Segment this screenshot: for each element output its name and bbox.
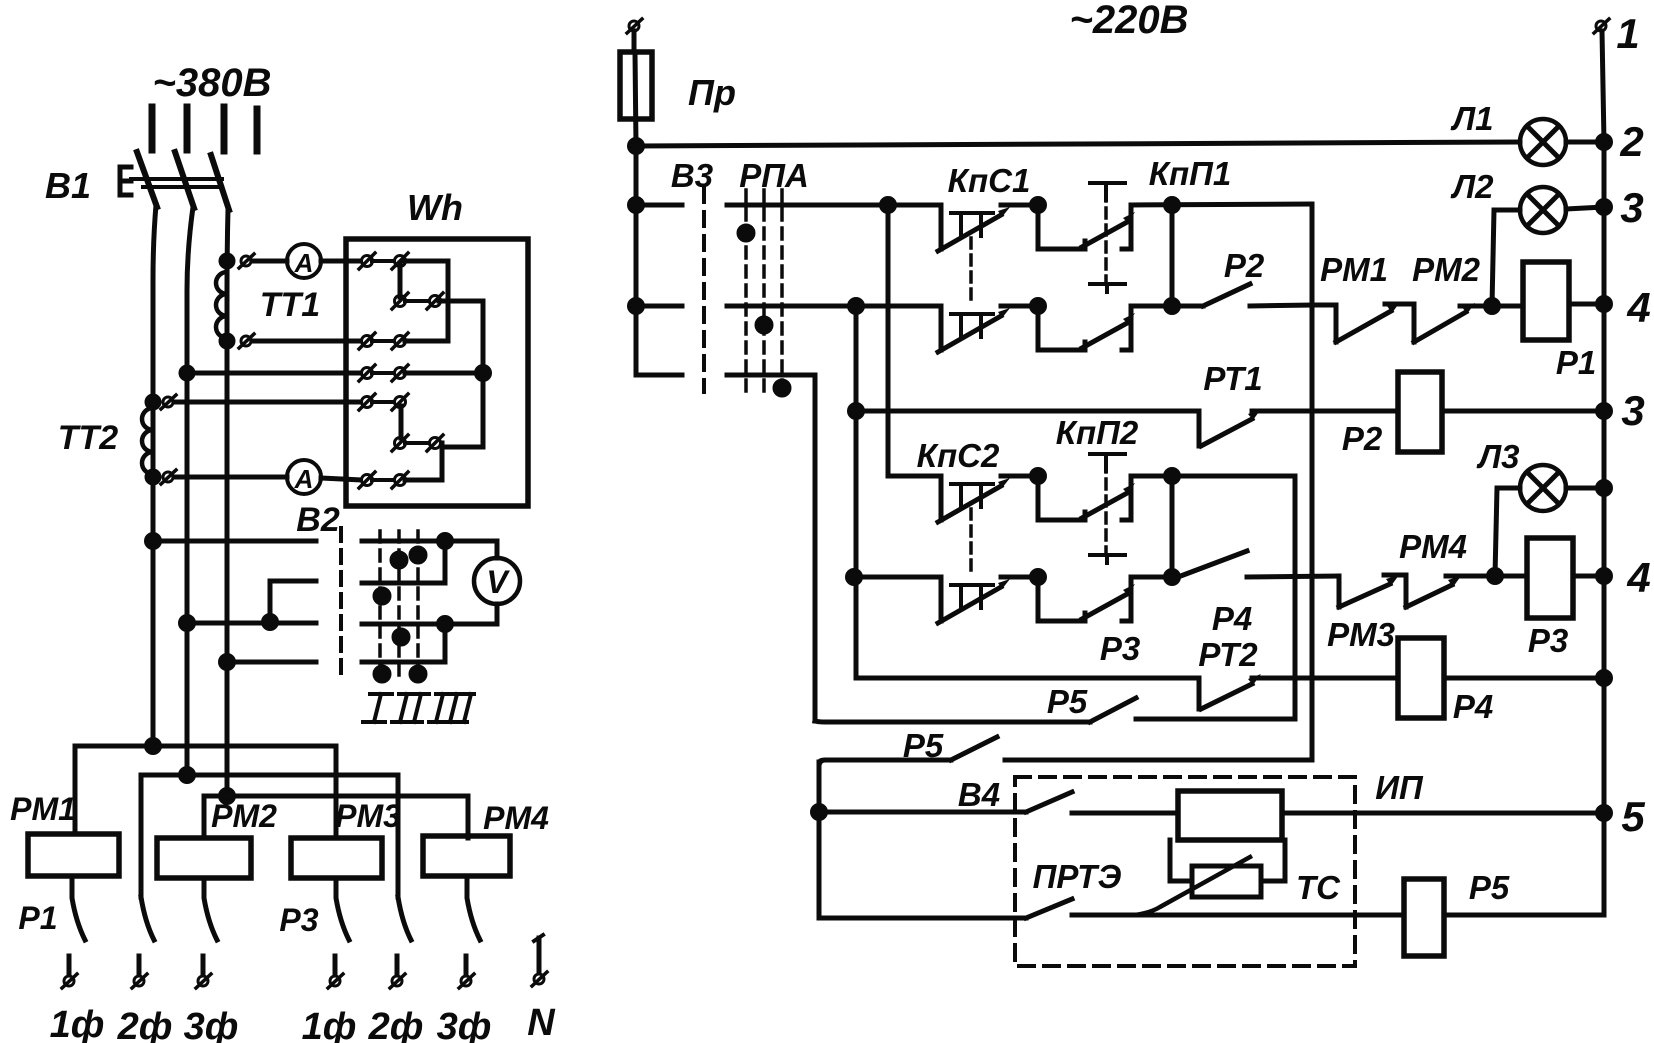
wire row3 stub xyxy=(636,373,682,378)
svg-text:А: А xyxy=(294,464,314,494)
switch B2 contact dot row1 pos II xyxy=(392,553,406,567)
wire PRTE row left xyxy=(819,916,1026,921)
svg-text:РМ2: РМ2 xyxy=(1412,251,1481,288)
wire ammeter A1 to Wh xyxy=(321,259,362,264)
button KpS1 upper contact xyxy=(938,205,1010,251)
contact under feed row2 left xyxy=(141,897,154,940)
relay RPA dashed line 3 xyxy=(780,190,784,392)
wire row1 tail xyxy=(1131,204,1312,205)
wire P5 coil right lead xyxy=(1444,913,1604,918)
terminal TT2 bottom xyxy=(161,470,176,484)
terminal Wh pair C xyxy=(359,333,408,349)
contact under feed row2 right xyxy=(398,897,411,940)
switch B1 bar lower xyxy=(143,185,222,189)
button KpP2 link dashed xyxy=(1104,462,1108,555)
wire row1 after KpS1 xyxy=(1001,203,1035,208)
svg-text:~380В: ~380В xyxy=(153,61,272,105)
terminal TT1 bottom xyxy=(239,334,254,348)
terminal Wh pair G xyxy=(392,435,443,451)
transformer TT1 winding xyxy=(216,272,227,338)
relay RPA dashed line 2 xyxy=(762,190,766,392)
svg-text:РМ3: РМ3 xyxy=(335,798,401,834)
node P4 bus junction xyxy=(1598,672,1611,685)
node B2 row4 tap on phase3 xyxy=(221,656,234,669)
switch B2 dashed shaft xyxy=(339,528,343,682)
contact PM2 xyxy=(1385,303,1489,342)
wire row2 to vertical xyxy=(1250,305,1312,306)
terminal TT2 top xyxy=(161,395,176,409)
contact under PM2 xyxy=(204,878,217,940)
svg-text:V: V xyxy=(486,564,510,600)
node row1 holding tap xyxy=(1166,199,1179,212)
wire B4 row xyxy=(819,810,1026,815)
node fuse-bus junction xyxy=(630,140,643,153)
node row 577 start xyxy=(848,571,861,584)
relay coil PM1 xyxy=(28,834,119,876)
wire B2 row4 right xyxy=(362,660,445,665)
wire row2 to P2 contact xyxy=(1131,304,1203,309)
contact PM3 xyxy=(1339,575,1399,607)
button KpP1 link dashed xyxy=(1104,191,1108,284)
svg-text:1ф: 1ф xyxy=(302,1006,357,1043)
relay RPA dashed line 1 xyxy=(744,190,748,392)
wire RT1 to P2 coil xyxy=(1252,409,1398,414)
node RT1 row start xyxy=(850,405,863,418)
wire row2 stub xyxy=(636,304,682,309)
svg-text:В4: В4 xyxy=(958,776,1000,813)
node 5 xyxy=(1598,807,1611,820)
wire lamp L3 branch xyxy=(1495,488,1520,576)
svg-text:Р1: Р1 xyxy=(1556,344,1596,381)
contact RT2 xyxy=(1199,674,1261,709)
wire TC bracket left xyxy=(1170,840,1192,881)
wire supply stub neutral xyxy=(254,109,261,151)
thermistor TC adjust arrow xyxy=(1135,857,1250,915)
wire row 577 mid xyxy=(1247,576,1339,577)
terminal 1f left group xyxy=(62,956,77,988)
terminal Wh pair B xyxy=(392,293,443,309)
wire Wh internal D lead xyxy=(405,371,480,376)
wire phase2 vertical xyxy=(187,207,193,775)
switch B2 contact dot row3 pos II xyxy=(394,630,408,644)
terminal Wh pair D xyxy=(359,365,408,381)
contact P5 lower blade xyxy=(951,737,997,760)
wire vertical 888 to row 476 xyxy=(888,205,938,476)
svg-text:РМ4: РМ4 xyxy=(1399,528,1467,565)
wire row 722 xyxy=(815,721,1090,722)
wire PRTE row right xyxy=(1072,913,1404,918)
relay coil PM3 xyxy=(291,838,382,878)
coil P4 xyxy=(1398,638,1444,718)
switch B2 position line I xyxy=(378,531,382,680)
button KpP2 lower contact xyxy=(1038,555,1135,621)
wire holding vertical 1312 xyxy=(1310,204,1315,760)
wire supply stub phase1 xyxy=(149,107,156,150)
wire B2 row3 to voltmeter xyxy=(445,604,497,624)
svg-text:РМ2: РМ2 xyxy=(211,798,277,834)
svg-text:Р5: Р5 xyxy=(1047,683,1088,720)
wire row 577 after KpS2 xyxy=(1001,575,1035,580)
switch B1 bracket xyxy=(120,167,131,195)
switch B2 position line III xyxy=(416,531,420,680)
lamp L3 xyxy=(1520,465,1566,511)
wire TT2 bottom tap to ammeter A2 xyxy=(174,475,287,480)
wire row1 stub xyxy=(636,203,682,208)
wire holding vertical 1295 xyxy=(1136,476,1295,719)
wire RT1 row xyxy=(856,409,1199,414)
svg-text:3: 3 xyxy=(1620,184,1643,231)
node P1 coil input xyxy=(1486,300,1499,313)
ammeter A1 xyxy=(287,244,321,278)
svg-text:РМ1: РМ1 xyxy=(1320,251,1388,288)
node B4 row tap xyxy=(813,806,826,819)
node phase2 to feed row2 xyxy=(181,769,194,782)
svg-text:Р4: Р4 xyxy=(1453,688,1493,725)
wire holding link 1172 lower xyxy=(1170,476,1175,577)
wire P1 leads xyxy=(1492,304,1604,306)
contact PRTE blade xyxy=(1026,899,1072,918)
svg-text:ТС: ТС xyxy=(1296,869,1341,906)
svg-text:А: А xyxy=(294,248,314,278)
wire B2 row3 right xyxy=(362,622,445,627)
contact P2 blade xyxy=(1203,284,1250,306)
svg-text:Р3: Р3 xyxy=(279,902,318,938)
wire P4 coil to bus xyxy=(1444,676,1604,681)
button KpS1 link dashed xyxy=(969,238,973,300)
voltmeter V xyxy=(474,558,520,604)
wire row 577 left xyxy=(854,575,938,580)
svg-text:КпС1: КпС1 xyxy=(948,162,1031,199)
wire row 722 right xyxy=(1136,717,1295,722)
node row2 to vertical 856 xyxy=(850,300,863,313)
svg-text:4: 4 xyxy=(1626,284,1650,331)
node 4 lower xyxy=(1598,570,1611,583)
contact under PM4 xyxy=(467,876,480,940)
wire B2 row1 right xyxy=(362,539,445,544)
wire TT2 top tap to Wh xyxy=(174,400,362,405)
svg-text:РМ4: РМ4 xyxy=(483,800,549,836)
switch B2 contact dot row4 pos III xyxy=(411,667,425,681)
wire B2 row4 left xyxy=(227,660,316,665)
svg-text:2ф: 2ф xyxy=(368,1006,424,1043)
svg-text:1ф: 1ф xyxy=(50,1004,105,1043)
wire Wh internal A to B link xyxy=(398,263,403,297)
relay coil PM4 xyxy=(423,836,510,876)
switch B2 contact dot row4 pos I xyxy=(375,667,389,681)
node feeder row2 xyxy=(630,300,643,313)
node KpP2 lower input xyxy=(1032,571,1045,584)
node TT1 top tap junction xyxy=(221,255,233,267)
contact P3 blade xyxy=(1178,551,1247,577)
terminal N group xyxy=(532,935,547,986)
wire B4 row to heater xyxy=(1072,811,1178,816)
node B2 row1 right junction xyxy=(439,535,452,548)
wire B2 row1 to voltmeter xyxy=(445,541,497,558)
button KpS2 link dashed xyxy=(969,509,973,571)
terminal Wh pair A xyxy=(359,253,408,269)
coil P3 xyxy=(1527,538,1573,618)
switch B1 blade pole1 xyxy=(137,152,157,207)
svg-text:4: 4 xyxy=(1626,554,1650,601)
relay RPA contact dot row1 xyxy=(739,226,753,240)
relay RPA contact dot row3 xyxy=(775,381,789,395)
node B2 row3 right junction xyxy=(439,618,452,631)
wire Wh internal E to G link xyxy=(399,406,404,438)
svg-text:Р3: Р3 xyxy=(1528,622,1568,659)
wire phase1 vertical xyxy=(153,205,156,746)
wire right bus xyxy=(1602,31,1604,915)
svg-text:Пр: Пр xyxy=(688,72,736,113)
switch B2 contact dot row2 pos I xyxy=(375,589,389,603)
contact P3 under PM3 xyxy=(336,878,349,940)
node 2 xyxy=(1598,136,1611,149)
svg-text:~220В: ~220В xyxy=(1070,0,1189,42)
svg-text:РМ1: РМ1 xyxy=(10,791,76,827)
contact RT1 xyxy=(1199,409,1261,446)
node phase2 voltage tap xyxy=(181,367,193,379)
wire row1 main xyxy=(727,203,938,208)
node row 476 holding tap xyxy=(1166,470,1179,483)
node phase3 to feed row3 xyxy=(221,790,234,803)
wire ammeter A2 to Wh xyxy=(321,478,362,480)
wire B2 row1-row2 link xyxy=(443,541,448,583)
wire vertical 819 xyxy=(817,762,822,918)
terminal Wh pair E xyxy=(359,394,408,410)
svg-text:1: 1 xyxy=(1616,10,1639,57)
button KpS2 lower contact xyxy=(938,577,1010,623)
node 4 xyxy=(1598,298,1611,311)
thermistor TC xyxy=(1192,866,1261,897)
node 3 lower xyxy=(1598,405,1611,418)
svg-text:3ф: 3ф xyxy=(437,1006,492,1043)
switch B2 position line II xyxy=(397,531,401,680)
relay coil PM2 xyxy=(157,838,251,878)
svg-text:ТТ2: ТТ2 xyxy=(58,419,119,457)
node B2 row3 tap on phase2 xyxy=(181,617,194,630)
wire feed row3 xyxy=(204,796,468,838)
svg-text:РПА: РПА xyxy=(739,157,809,194)
wire B2 row1 left xyxy=(153,539,316,544)
wire row2 main xyxy=(727,304,938,309)
button KpS1 lower contact xyxy=(938,306,1010,352)
svg-text:2ф: 2ф xyxy=(117,1006,173,1043)
node 3 xyxy=(1598,201,1611,214)
contact PM1 xyxy=(1312,302,1400,342)
svg-text:КпП1: КпП1 xyxy=(1149,155,1232,192)
svg-text:3: 3 xyxy=(1621,387,1644,434)
node KpP1 upper input xyxy=(1032,199,1045,212)
wire row 760 right xyxy=(1005,758,1312,763)
terminal 3f right group xyxy=(459,956,474,988)
svg-text:В2: В2 xyxy=(296,501,340,539)
wire lamp L2 to node 3 xyxy=(1566,207,1604,209)
svg-text:РТ2: РТ2 xyxy=(1198,636,1258,673)
contact PM4 xyxy=(1384,575,1492,607)
terminal Wh pair F xyxy=(359,472,408,488)
node row2 holding tap xyxy=(1166,300,1179,313)
wire B2 row3-row4 link xyxy=(443,624,448,662)
wire feed row2 xyxy=(141,775,398,897)
svg-text:ИП: ИП xyxy=(1375,769,1424,806)
wire holding link 1172 xyxy=(1170,205,1175,306)
fuse Pr xyxy=(620,52,652,119)
wire lamp L2 branch xyxy=(1492,210,1520,306)
svg-text:Wh: Wh xyxy=(407,187,463,228)
contact P5 upper blade xyxy=(1090,698,1136,722)
wire top bus xyxy=(636,142,1520,146)
terminal 2f right group xyxy=(390,956,405,988)
button KpP2 upper contact xyxy=(1038,454,1135,520)
svg-text:Р1: Р1 xyxy=(18,900,57,936)
node TT2 top tap junction xyxy=(147,396,159,408)
wire P3 leads xyxy=(1495,574,1604,579)
svg-text:Л3: Л3 xyxy=(1476,438,1519,475)
svg-text:Л2: Л2 xyxy=(1450,168,1494,205)
button KpS2 upper contact xyxy=(938,476,1010,522)
coil P5 xyxy=(1404,879,1444,956)
wire row 476 tail xyxy=(1131,474,1295,479)
svg-text:КпС2: КпС2 xyxy=(917,437,1000,474)
switch B3 dashed shaft xyxy=(702,188,706,392)
wire vertical 815 from row3 xyxy=(813,375,818,721)
svg-text:КпП2: КпП2 xyxy=(1056,414,1139,451)
node feeder row1 xyxy=(630,199,643,212)
svg-text:РТ1: РТ1 xyxy=(1203,360,1262,397)
node Wh internal voltage junction xyxy=(477,367,490,380)
switch B2 positions label I II III xyxy=(363,694,474,722)
wire TT1 bottom tap to Wh xyxy=(252,339,362,344)
switch B1 blade pole2 xyxy=(175,152,194,208)
node phase1 to feed row1 xyxy=(147,740,160,753)
wire supply stub phase2 xyxy=(184,107,191,150)
node KpP2 upper input xyxy=(1032,470,1045,483)
svg-text:Р4: Р4 xyxy=(1212,600,1252,637)
svg-text:ТТ1: ТТ1 xyxy=(260,286,320,324)
wire fuse to bus xyxy=(635,52,636,146)
wire lamp L3 to bus xyxy=(1566,486,1604,491)
terminal 3f left group xyxy=(196,956,211,988)
ammeter A2 xyxy=(287,460,321,494)
button KpP1 lower contact xyxy=(1038,284,1135,350)
wire Wh internal B right riser xyxy=(405,301,483,480)
wire B2 row3 left xyxy=(187,621,316,626)
svg-text:5: 5 xyxy=(1621,793,1645,840)
wire row 476 after KpS2 xyxy=(1001,474,1035,479)
wire phase2 voltage tap to Wh xyxy=(187,371,362,376)
node B2 row2 drop junction xyxy=(264,616,277,629)
svg-text:РМ3: РМ3 xyxy=(1327,616,1395,653)
node row1 to hold vertical xyxy=(882,199,895,212)
wire Wh internal current loop 1 xyxy=(405,261,448,341)
wire vertical 856 xyxy=(854,306,859,678)
wire row 760 left xyxy=(819,760,951,764)
terminal 2f left group xyxy=(132,956,147,988)
wire B2 row2 left xyxy=(270,581,316,622)
coil P2 xyxy=(1398,372,1442,452)
lamp L1 xyxy=(1520,119,1566,165)
button KpP1 upper contact xyxy=(1038,183,1135,249)
node P3 coil input xyxy=(1489,570,1502,583)
node lamp L3 bus junction xyxy=(1598,482,1611,495)
terminal fuse top xyxy=(627,19,642,52)
meter Wh box xyxy=(346,239,528,506)
wire RT2 to P4 coil xyxy=(1252,676,1398,681)
coil P1 xyxy=(1523,262,1569,340)
contact P1 under PM1 xyxy=(72,876,85,940)
node B2 row1 tap on phase1 xyxy=(147,535,160,548)
wire feed row1 xyxy=(75,746,336,838)
box IP dashed xyxy=(1015,777,1355,966)
wire TT1 top tap to ammeter xyxy=(252,259,287,264)
wire left feeder vertical xyxy=(634,146,639,375)
lamp L2 xyxy=(1520,187,1566,233)
wire row3 main xyxy=(727,373,815,378)
wire B2 row2 right xyxy=(362,581,445,586)
heater element IP upper xyxy=(1178,791,1282,840)
terminal 1f right group xyxy=(328,956,343,988)
wire P2 coil to node 3 lower xyxy=(1442,409,1604,414)
wire supply stub phase3 xyxy=(221,107,228,151)
node KpP1 lower input xyxy=(1032,300,1045,313)
switch B2 contact dot row1 pos III xyxy=(411,548,425,562)
wire row 577 to P3 contact xyxy=(1131,575,1178,580)
svg-text:ПРТЭ: ПРТЭ xyxy=(1033,858,1122,895)
switch B4 blade xyxy=(1026,792,1072,812)
svg-text:Р2: Р2 xyxy=(1342,420,1383,457)
wire phase3 vertical xyxy=(227,209,228,796)
terminal TT1 top xyxy=(239,254,254,268)
switch B1 bar upper xyxy=(131,177,222,181)
node TT1 bottom tap junction xyxy=(221,335,233,347)
wire lamp L1 to node 2 xyxy=(1566,140,1604,145)
wire TC bracket right xyxy=(1261,840,1285,881)
relay RPA contact dot row2 xyxy=(757,318,771,332)
svg-text:2: 2 xyxy=(1619,118,1643,165)
switch B1 blade pole3 xyxy=(211,155,229,210)
svg-text:Р3: Р3 xyxy=(1100,630,1140,667)
wire row 678 xyxy=(856,676,1199,681)
wire heater to node 5 xyxy=(1282,811,1604,816)
node row 577 holding tap xyxy=(1166,571,1179,584)
transformer TT2 winding xyxy=(142,408,153,474)
svg-text:Р5: Р5 xyxy=(1469,869,1510,906)
svg-text:В1: В1 xyxy=(45,165,91,206)
svg-text:3ф: 3ф xyxy=(184,1006,239,1043)
terminal bus top xyxy=(1594,19,1609,33)
node TT2 bottom tap junction xyxy=(147,471,159,483)
wire Wh internal G stub xyxy=(440,443,445,447)
svg-text:N: N xyxy=(527,1002,556,1043)
wire row2 after KpS1 xyxy=(1001,304,1035,309)
svg-text:В3: В3 xyxy=(671,157,713,194)
svg-text:Л1: Л1 xyxy=(1450,100,1493,137)
svg-text:Р2: Р2 xyxy=(1224,247,1265,284)
